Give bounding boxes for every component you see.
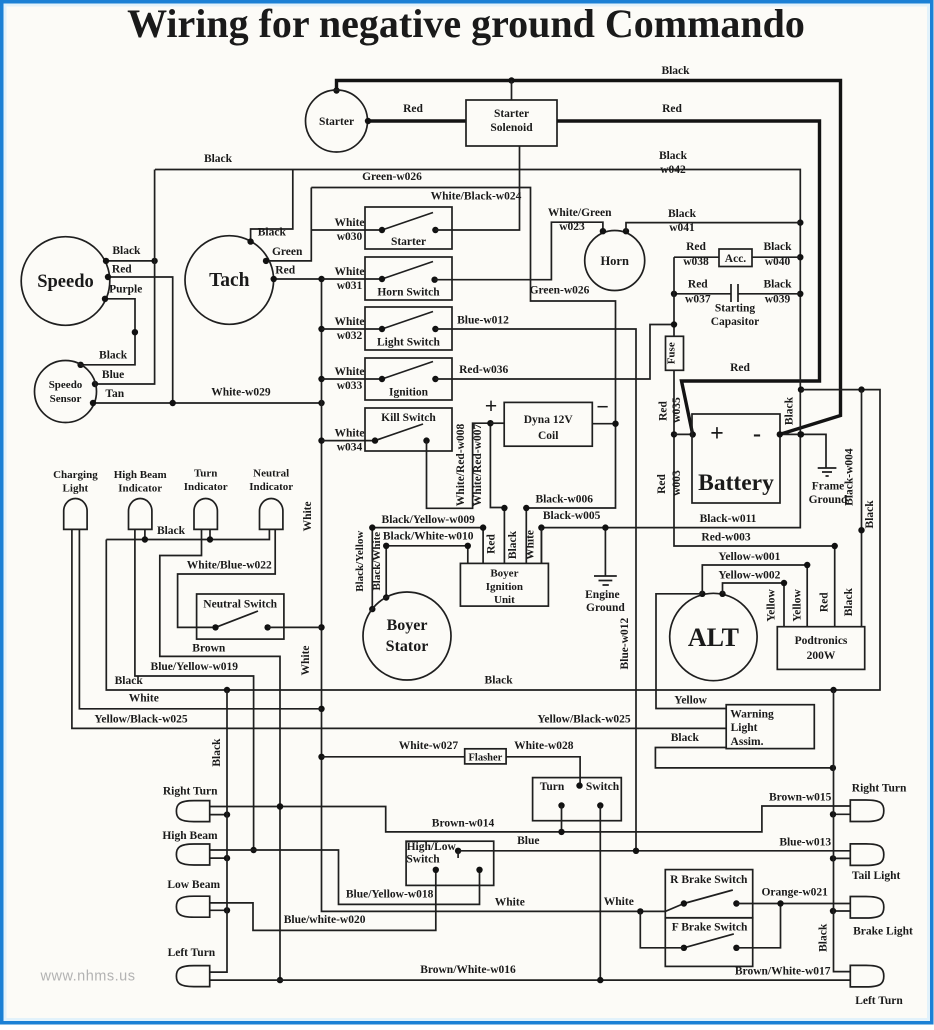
wire Black-w042 trunk (155, 150, 804, 563)
wire White-w034 (322, 428, 376, 454)
svg-text:Black: Black (843, 588, 855, 617)
svg-text:Light: Light (731, 722, 758, 734)
svg-text:Blue-w012: Blue-w012 (457, 315, 509, 327)
svg-text:Brown: Brown (192, 642, 226, 654)
title (127, 1, 805, 46)
label Low Beam left (167, 879, 220, 891)
svg-text:w040: w040 (765, 256, 791, 268)
svg-text:Turn: Turn (194, 468, 217, 480)
wire White/Red-w008 (427, 423, 491, 508)
svg-text:Starting: Starting (715, 303, 756, 315)
label High Beam left (162, 830, 218, 842)
wire Yellow-w001 (702, 551, 810, 627)
motor Starter (306, 90, 368, 152)
svg-text:Red: Red (730, 362, 750, 374)
svg-text:Coil: Coil (538, 430, 558, 442)
svg-text:Red: Red (403, 103, 423, 115)
switch Horn Switch S2 (365, 257, 452, 300)
wire Brown/White-w016 (210, 964, 851, 983)
svg-text:Low Beam: Low Beam (167, 879, 220, 891)
capacitor Starting Capasitor C1 (711, 284, 760, 328)
wire Blue/Yellow-w019 (115, 529, 257, 853)
svg-text:Black: Black (784, 396, 796, 425)
gauge Speedo (21, 237, 110, 326)
svg-text:Kill Switch: Kill Switch (381, 412, 436, 424)
svg-text:Ground: Ground (809, 494, 848, 506)
svg-text:Brown-w014: Brown-w014 (432, 818, 495, 830)
svg-text:Horn: Horn (600, 254, 629, 268)
svg-text:White-w028: White-w028 (514, 740, 574, 752)
lamp Tail Light (850, 844, 884, 866)
wire Black bus right (106, 386, 880, 693)
wire Tach Green (263, 188, 312, 265)
svg-text:White-w029: White-w029 (211, 387, 271, 399)
svg-text:Speedo: Speedo (49, 379, 83, 391)
svg-text:Black: Black (864, 500, 876, 529)
svg-text:Black: Black (157, 525, 186, 537)
ground Frame Ground (809, 468, 848, 506)
label Turn Indicator (184, 468, 228, 494)
svg-text:Left Turn: Left Turn (168, 947, 216, 959)
svg-text:Engine: Engine (585, 589, 620, 601)
svg-text:Black: Black (258, 227, 287, 239)
svg-text:Horn Switch: Horn Switch (377, 287, 440, 299)
wire Black warning (655, 732, 836, 771)
svg-text:Acc.: Acc. (725, 253, 747, 265)
wire Brown turn indicator (160, 529, 283, 983)
svg-text:Boyer: Boyer (490, 568, 518, 580)
wire Red-w036 (435, 325, 674, 380)
wire battery minus to frame ground (777, 431, 826, 468)
svg-text:White/Red-w007: White/Red-w007 (472, 424, 484, 507)
label Left Turn right (855, 995, 903, 1007)
wire Red solenoid-battery (heavy) (557, 103, 820, 435)
svg-text:Blue: Blue (517, 835, 539, 847)
wire Black lamp ground riser (210, 690, 227, 972)
svg-text:Black: Black (763, 241, 792, 253)
svg-text:White: White (495, 897, 525, 909)
svg-text:Assim.: Assim. (731, 736, 764, 748)
svg-text:Black: Black (661, 65, 690, 77)
svg-text:w032: w032 (337, 330, 363, 342)
wire Red-w037 row (671, 279, 731, 306)
svg-text:White-w027: White-w027 (399, 740, 459, 752)
svg-text:Indicator: Indicator (184, 481, 228, 493)
wire Blue/white-w020 (210, 870, 436, 931)
module Warning Light Assim. (726, 705, 814, 749)
svg-text:Black-w004: Black-w004 (844, 448, 856, 506)
svg-text:w034: w034 (337, 442, 363, 454)
svg-text:w038: w038 (683, 256, 709, 268)
svg-text:ALT: ALT (688, 623, 739, 652)
svg-text:w042: w042 (660, 164, 686, 176)
wire Red-w038 row (674, 241, 719, 268)
svg-text:F Brake Switch: F Brake Switch (672, 921, 748, 933)
svg-text:White: White (334, 428, 364, 440)
wire Black-w006 (507, 421, 619, 564)
svg-text:Black-w011: Black-w011 (700, 513, 757, 525)
lamp Turn Indicator (194, 499, 217, 530)
svg-text:Unit: Unit (494, 594, 515, 606)
svg-text:Brake Light: Brake Light (853, 925, 913, 937)
wire White/Green-w023 (435, 207, 613, 280)
svg-text:Stator: Stator (386, 638, 429, 655)
wire right turn right leads (830, 811, 851, 817)
svg-text:Turn: Turn (540, 781, 565, 793)
svg-text:Red-w003: Red-w003 (701, 532, 750, 544)
svg-text:Blue/Yellow-w019: Blue/Yellow-w019 (151, 661, 239, 673)
svg-text:Sensor: Sensor (50, 393, 82, 405)
wire Black-w005 white riser (540, 528, 542, 564)
lamp Right Turn left (176, 801, 209, 822)
svg-text:-: - (753, 421, 761, 447)
svg-text:Black: Black (99, 350, 128, 362)
svg-text:Green: Green (272, 246, 303, 258)
switch F Brake Switch S10 (665, 918, 752, 967)
wire Black/Yellow-w009 (354, 514, 486, 612)
svg-text:Black/White: Black/White (371, 532, 383, 591)
svg-text:High Beam: High Beam (162, 830, 218, 842)
svg-text:Brown-w015: Brown-w015 (769, 791, 832, 803)
lamp Left Turn left (176, 966, 209, 987)
svg-text:R Brake Switch: R Brake Switch (670, 874, 748, 886)
svg-text:Black: Black (485, 675, 514, 687)
svg-text:Ignition: Ignition (486, 581, 523, 593)
svg-text:Yellow/Black-w025: Yellow/Black-w025 (94, 713, 188, 725)
switch Ignition S4 (365, 358, 452, 400)
module Boyer Ignition Unit (460, 563, 548, 606)
wire turn switch right riser (599, 806, 601, 981)
svg-text:Tach: Tach (209, 270, 250, 291)
wire Black/White-w010 (371, 531, 474, 601)
wire Black brake lamp riser (818, 690, 851, 972)
svg-text:Starter: Starter (319, 116, 354, 128)
wire Black-w041 (626, 208, 800, 234)
svg-text:Capasitor: Capasitor (711, 316, 760, 328)
svg-text:Black-w006: Black-w006 (535, 494, 593, 506)
svg-text:Black: Black (671, 732, 700, 744)
wire Speedo Black (103, 245, 158, 264)
svg-text:Blue-w012: Blue-w012 (619, 617, 631, 669)
wire White-w031 (322, 266, 383, 292)
wire Tach Red (271, 265, 322, 283)
wire brake light leads (830, 908, 851, 914)
switch Turn Switch S7 (533, 778, 622, 821)
coil Dyna 12V Coil (485, 393, 609, 446)
switch Neutral Switch S6 (197, 594, 284, 639)
svg-text:Switch: Switch (406, 854, 440, 866)
svg-text:200W: 200W (807, 650, 836, 662)
regulator Podtronics 200W (777, 627, 864, 670)
svg-text:w035: w035 (671, 397, 683, 423)
svg-text:Yellow: Yellow (792, 589, 804, 622)
wire Yellow/Black-w025 (72, 529, 726, 728)
svg-text:w003: w003 (671, 470, 683, 496)
svg-text:Yellow: Yellow (674, 694, 707, 706)
wire White to F brake (640, 911, 684, 947)
svg-text:Red: Red (275, 265, 295, 277)
svg-text:Red-w036: Red-w036 (459, 364, 508, 376)
svg-text:Neutral: Neutral (253, 468, 289, 480)
wire Black-w040 row (752, 241, 800, 268)
wire Speedo Blue riser (92, 170, 155, 388)
lamp Right Turn right (850, 800, 884, 822)
svg-text:Red: Red (112, 264, 132, 276)
svg-text:Brown/White-w016: Brown/White-w016 (420, 964, 516, 976)
label Left Turn left (168, 947, 216, 959)
svg-text:Black: Black (763, 279, 792, 291)
svg-text:w037: w037 (685, 294, 711, 306)
svg-text:Wiring for negative ground Com: Wiring for negative ground Commando (127, 1, 805, 46)
svg-text:White/Black-w024: White/Black-w024 (431, 191, 522, 203)
svg-text:Black: Black (115, 675, 144, 687)
switch Kill Switch S5 (365, 408, 452, 451)
svg-text:High Beam: High Beam (114, 469, 167, 481)
svg-text:Boyer: Boyer (387, 617, 428, 634)
svg-text:Blue-w013: Blue-w013 (779, 836, 831, 848)
svg-text:White: White (334, 266, 364, 278)
wire White/Blue-w022 (178, 529, 276, 627)
svg-text:Blue: Blue (102, 369, 124, 381)
svg-text:Purple: Purple (109, 284, 142, 296)
wire low beam ground stub (210, 907, 231, 913)
svg-text:Left Turn: Left Turn (855, 995, 903, 1007)
sensor Speedo Sensor (35, 361, 97, 423)
wire Blue-w012 (435, 315, 636, 851)
svg-text:Red: Red (818, 592, 830, 612)
svg-text:Black: Black (112, 245, 141, 257)
label Black top (661, 65, 690, 77)
svg-text:Red: Red (658, 400, 670, 420)
wire Black-w004 (844, 390, 865, 627)
svg-text:White: White (129, 692, 159, 704)
svg-text:Neutral Switch: Neutral Switch (203, 599, 277, 611)
alternator ALT (670, 591, 757, 681)
accessory Acc. (719, 249, 752, 267)
wire Yellow-w002 (718, 570, 787, 627)
wire Tan White-w029 (90, 387, 325, 407)
watermark www.nhms.us (40, 969, 136, 985)
wire White bus (300, 276, 684, 915)
svg-text:Blue/white-w020: Blue/white-w020 (284, 914, 366, 926)
wire fuse bus (671, 257, 677, 336)
lamp Charging Light (64, 498, 87, 529)
svg-text:White: White (300, 645, 312, 675)
svg-text:w023: w023 (559, 221, 585, 233)
svg-text:w030: w030 (337, 231, 363, 243)
svg-text:Black: Black (668, 208, 697, 220)
svg-text:White/Blue-w022: White/Blue-w022 (187, 559, 272, 571)
svg-text:w041: w041 (669, 222, 695, 234)
wire White/Black-w024 (431, 146, 522, 230)
wire Tach Black (247, 170, 292, 245)
switch Starter S1 (365, 207, 452, 249)
label Neutral Indicator (249, 468, 293, 494)
svg-text:+: + (485, 393, 498, 418)
svg-text:Black: Black (204, 153, 233, 165)
svg-text:Starter: Starter (391, 236, 426, 248)
svg-text:White/Red-w008: White/Red-w008 (455, 424, 467, 507)
switch R Brake Switch S9 (665, 870, 752, 918)
wire Speedo Purple to sensor (77, 284, 142, 368)
svg-text:Right Turn: Right Turn (852, 783, 907, 795)
svg-text:Black: Black (211, 738, 223, 767)
svg-text:+: + (710, 421, 724, 447)
label Black podtronics (843, 588, 855, 617)
svg-text:Green-w026: Green-w026 (362, 171, 422, 183)
label Tail Light (852, 870, 901, 882)
svg-text:Charging: Charging (53, 469, 98, 481)
svg-text:Switch: Switch (586, 781, 620, 793)
svg-text:White: White (334, 366, 364, 378)
svg-text:Black/Yellow: Black/Yellow (354, 531, 366, 592)
svg-text:White: White (334, 316, 364, 328)
svg-text:w039: w039 (765, 294, 791, 306)
label Right Turn left (163, 785, 218, 797)
label Charging Light (53, 469, 98, 495)
horn Horn (585, 228, 645, 291)
svg-text:Warning: Warning (730, 709, 774, 721)
lamp Low Beam left (176, 896, 209, 917)
wire Orange-w021 (736, 887, 850, 948)
svg-text:Yellow: Yellow (766, 589, 778, 622)
label Right Turn right (852, 783, 907, 795)
wire White-w033 (322, 366, 383, 392)
wire Red starter-solenoid (heavy) (365, 103, 466, 124)
svg-text:Right Turn: Right Turn (163, 785, 218, 797)
wire Black indicator ground row (106, 525, 269, 543)
svg-text:Red: Red (688, 279, 708, 291)
svg-text:Red: Red (662, 103, 682, 115)
wire Green-w026 net (311, 171, 615, 424)
svg-text:Tan: Tan (105, 388, 124, 400)
wire White-w032 (322, 316, 383, 342)
svg-text:Black-w005: Black-w005 (543, 510, 601, 522)
svg-text:Yellow-w001: Yellow-w001 (718, 551, 780, 563)
wire Brown-w014 (210, 791, 851, 835)
svg-text:Red: Red (686, 241, 706, 253)
fuse Fuse F1 (666, 336, 684, 370)
wire Yellow ALT to warning (656, 594, 726, 709)
svg-text:Starter: Starter (494, 108, 529, 120)
svg-text:Fuse: Fuse (666, 342, 678, 364)
svg-text:Podtronics: Podtronics (795, 635, 848, 647)
svg-text:www.nhms.us: www.nhms.us (40, 969, 136, 985)
svg-text:Light: Light (63, 483, 89, 495)
relay Starter Solenoid U1 (466, 100, 557, 146)
svg-text:Indicator: Indicator (249, 481, 293, 493)
wire Black-w039 row (738, 279, 800, 306)
svg-text:Battery: Battery (698, 470, 774, 496)
svg-text:Red: Red (656, 473, 668, 493)
svg-text:Black: Black (507, 530, 519, 559)
gauge Tach (185, 236, 274, 325)
svg-text:Black/White-w010: Black/White-w010 (383, 531, 474, 543)
svg-text:Blue/Yellow-w018: Blue/Yellow-w018 (346, 889, 434, 901)
wire White-w028 (506, 740, 580, 786)
flasher Flasher (465, 749, 506, 764)
svg-text:Green-w026: Green-w026 (530, 285, 590, 297)
svg-text:Dyna 12V: Dyna 12V (524, 414, 574, 426)
lamp High Beam left (176, 844, 209, 865)
lamp Left Turn right (850, 965, 884, 987)
svg-text:w033: w033 (337, 380, 363, 392)
battery Battery BT1 (692, 414, 780, 503)
svg-text:Black: Black (818, 923, 830, 952)
switch High/Low Switch S8 (406, 841, 494, 885)
wire Red-w035 Red-w003 (656, 370, 838, 626)
wire White-w027 (322, 740, 465, 757)
wire White/Red-w007 (472, 420, 508, 563)
svg-text:Yellow/Black-w025: Yellow/Black-w025 (537, 713, 631, 725)
wire neutral switch to white bus (268, 626, 322, 628)
label Brake Light (853, 925, 913, 937)
svg-text:w031: w031 (337, 280, 363, 292)
svg-text:White/Green: White/Green (548, 207, 612, 219)
svg-text:Tail Light: Tail Light (852, 870, 901, 882)
svg-text:White: White (334, 217, 364, 229)
svg-text:White: White (302, 501, 314, 531)
svg-text:Indicator: Indicator (118, 483, 162, 495)
svg-text:Black: Black (659, 150, 688, 162)
svg-text:−: − (596, 394, 609, 419)
lamp Brake Light (850, 897, 884, 919)
wire Speedo Red tap (105, 264, 173, 404)
lamp Neutral Indicator (260, 498, 283, 529)
wire tail light leads (830, 855, 851, 861)
svg-text:White: White (604, 896, 634, 908)
svg-text:Ground: Ground (586, 602, 625, 614)
wire battery plus stub (674, 431, 696, 437)
svg-text:High/Low: High/Low (407, 841, 457, 853)
svg-text:Red: Red (485, 533, 497, 553)
svg-text:Speedo: Speedo (37, 272, 94, 292)
generator Boyer Stator (363, 592, 451, 680)
wire White charging lamp (79, 529, 321, 708)
wire engine ground stub (602, 524, 608, 576)
wire right turn ground stub (210, 811, 231, 817)
switch Light Switch S3 (365, 307, 452, 350)
svg-text:Yellow-w002: Yellow-w002 (718, 570, 780, 582)
wire high beam ground stub (210, 855, 231, 861)
wire Blue/Yellow-w018 (210, 850, 480, 904)
svg-text:Flasher: Flasher (468, 753, 502, 764)
svg-text:Frame: Frame (812, 481, 845, 493)
wire Blue row (458, 835, 850, 854)
ground Engine Ground (585, 576, 625, 614)
svg-text:Ignition: Ignition (389, 387, 429, 399)
label High Beam Indicator (114, 469, 167, 495)
wire solenoid riser (511, 81, 513, 101)
lamp High Beam Indicator (129, 499, 152, 530)
wire Black starter ground (heavy) (333, 77, 840, 434)
svg-text:Light Switch: Light Switch (377, 337, 441, 349)
svg-text:Solenoid: Solenoid (490, 122, 533, 134)
svg-text:Black/Yellow-w009: Black/Yellow-w009 (382, 514, 476, 526)
svg-text:Orange-w021: Orange-w021 (761, 887, 828, 899)
label White w030 (334, 217, 364, 243)
